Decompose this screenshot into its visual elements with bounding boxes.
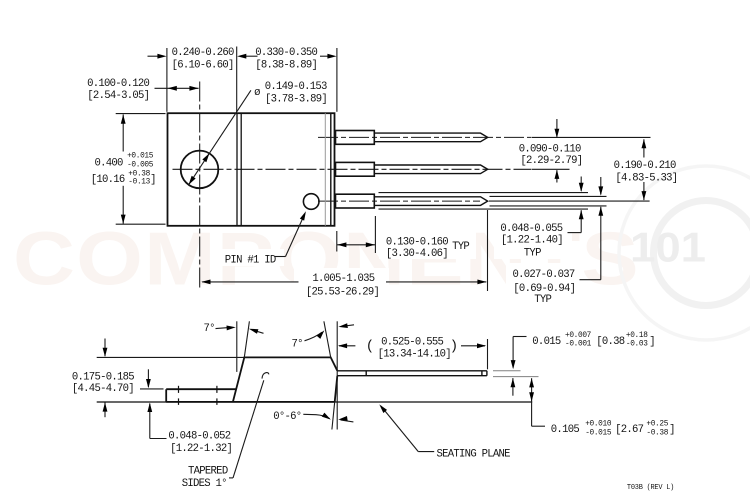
svg-text:): ) <box>450 339 458 355</box>
svg-text:SIDES 1°: SIDES 1° <box>182 478 227 490</box>
svg-text:[2.29-2.79]: [2.29-2.79] <box>520 155 582 167</box>
svg-text:-0.001: -0.001 <box>565 340 592 348</box>
svg-text:(: ( <box>366 339 374 355</box>
svg-text:]: ] <box>669 424 675 436</box>
svg-text:ø: ø <box>254 87 260 99</box>
svg-text:0°-6°: 0°-6° <box>273 411 301 423</box>
svg-text:+0.18: +0.18 <box>626 332 648 340</box>
svg-text:[6.10-6.60]: [6.10-6.60] <box>172 59 234 71</box>
svg-text:[13.34-14.10]: [13.34-14.10] <box>378 349 451 361</box>
svg-text:0.400: 0.400 <box>95 158 124 170</box>
svg-text:0.130-0.160: 0.130-0.160 <box>386 236 448 248</box>
svg-text:[1.22-1.32]: [1.22-1.32] <box>170 443 232 455</box>
svg-text:[2.67: [2.67 <box>615 424 644 436</box>
svg-text:0.190-0.210: 0.190-0.210 <box>614 160 676 172</box>
svg-text:0.048-0.055: 0.048-0.055 <box>500 223 562 235</box>
svg-text:0.330-0.350: 0.330-0.350 <box>255 47 317 59</box>
svg-text:0.525-0.555: 0.525-0.555 <box>381 336 443 348</box>
svg-text:TYP: TYP <box>524 248 541 260</box>
svg-text:[8.38-8.89]: [8.38-8.89] <box>255 59 317 71</box>
svg-text:0.240-0.260: 0.240-0.260 <box>172 47 234 59</box>
svg-text:+0.010: +0.010 <box>585 420 612 428</box>
svg-text:[10.16: [10.16 <box>91 174 125 186</box>
svg-text:-0.38: -0.38 <box>646 429 668 437</box>
svg-text:0.015: 0.015 <box>532 336 561 348</box>
svg-text:[4.45-4.70]: [4.45-4.70] <box>72 383 134 395</box>
svg-text:0.105: 0.105 <box>551 424 580 436</box>
svg-text:TAPERED: TAPERED <box>188 465 228 477</box>
svg-text:[3.78-3.89]: [3.78-3.89] <box>265 94 327 106</box>
svg-text:0.027-0.037: 0.027-0.037 <box>513 269 575 281</box>
svg-text:[3.30-4.06]: [3.30-4.06] <box>386 248 448 260</box>
svg-text:PIN #1 ID: PIN #1 ID <box>225 254 276 266</box>
svg-text:]: ] <box>649 336 655 348</box>
svg-text:-0.13: -0.13 <box>128 179 150 187</box>
svg-text:1.005-1.035: 1.005-1.035 <box>312 273 374 285</box>
svg-text:101: 101 <box>630 224 706 271</box>
svg-text:0.090-0.110: 0.090-0.110 <box>519 144 581 156</box>
svg-text:T03B (REV L): T03B (REV L) <box>627 484 674 492</box>
svg-text:+0.007: +0.007 <box>565 332 592 340</box>
svg-text:SEATING PLANE: SEATING PLANE <box>437 448 511 460</box>
svg-text:-0.005: -0.005 <box>127 162 154 170</box>
svg-text:]: ] <box>150 174 156 186</box>
svg-text:[1.22-1.40]: [1.22-1.40] <box>501 235 563 247</box>
svg-text:7°: 7° <box>292 338 303 350</box>
svg-text:7°: 7° <box>204 323 215 335</box>
svg-text:0.175-0.185: 0.175-0.185 <box>72 371 134 383</box>
svg-text:[4.83-5.33]: [4.83-5.33] <box>615 173 677 185</box>
svg-text:0.048-0.052: 0.048-0.052 <box>168 430 230 442</box>
svg-text:+0.38: +0.38 <box>128 170 150 178</box>
svg-text:TYP: TYP <box>534 294 551 306</box>
svg-text:-0.03: -0.03 <box>626 341 648 349</box>
svg-text:TYP: TYP <box>452 241 469 253</box>
svg-text:[2.54-3.05]: [2.54-3.05] <box>87 90 149 102</box>
svg-text:[0.38: [0.38 <box>596 336 625 348</box>
svg-text:-0.015: -0.015 <box>585 429 612 437</box>
svg-text:+0.25: +0.25 <box>646 420 668 428</box>
svg-text:0.100-0.120: 0.100-0.120 <box>87 78 149 90</box>
svg-text:0.149-0.153: 0.149-0.153 <box>265 81 327 93</box>
svg-text:[25.53-26.29]: [25.53-26.29] <box>306 287 379 299</box>
svg-text:+0.015: +0.015 <box>127 153 154 161</box>
